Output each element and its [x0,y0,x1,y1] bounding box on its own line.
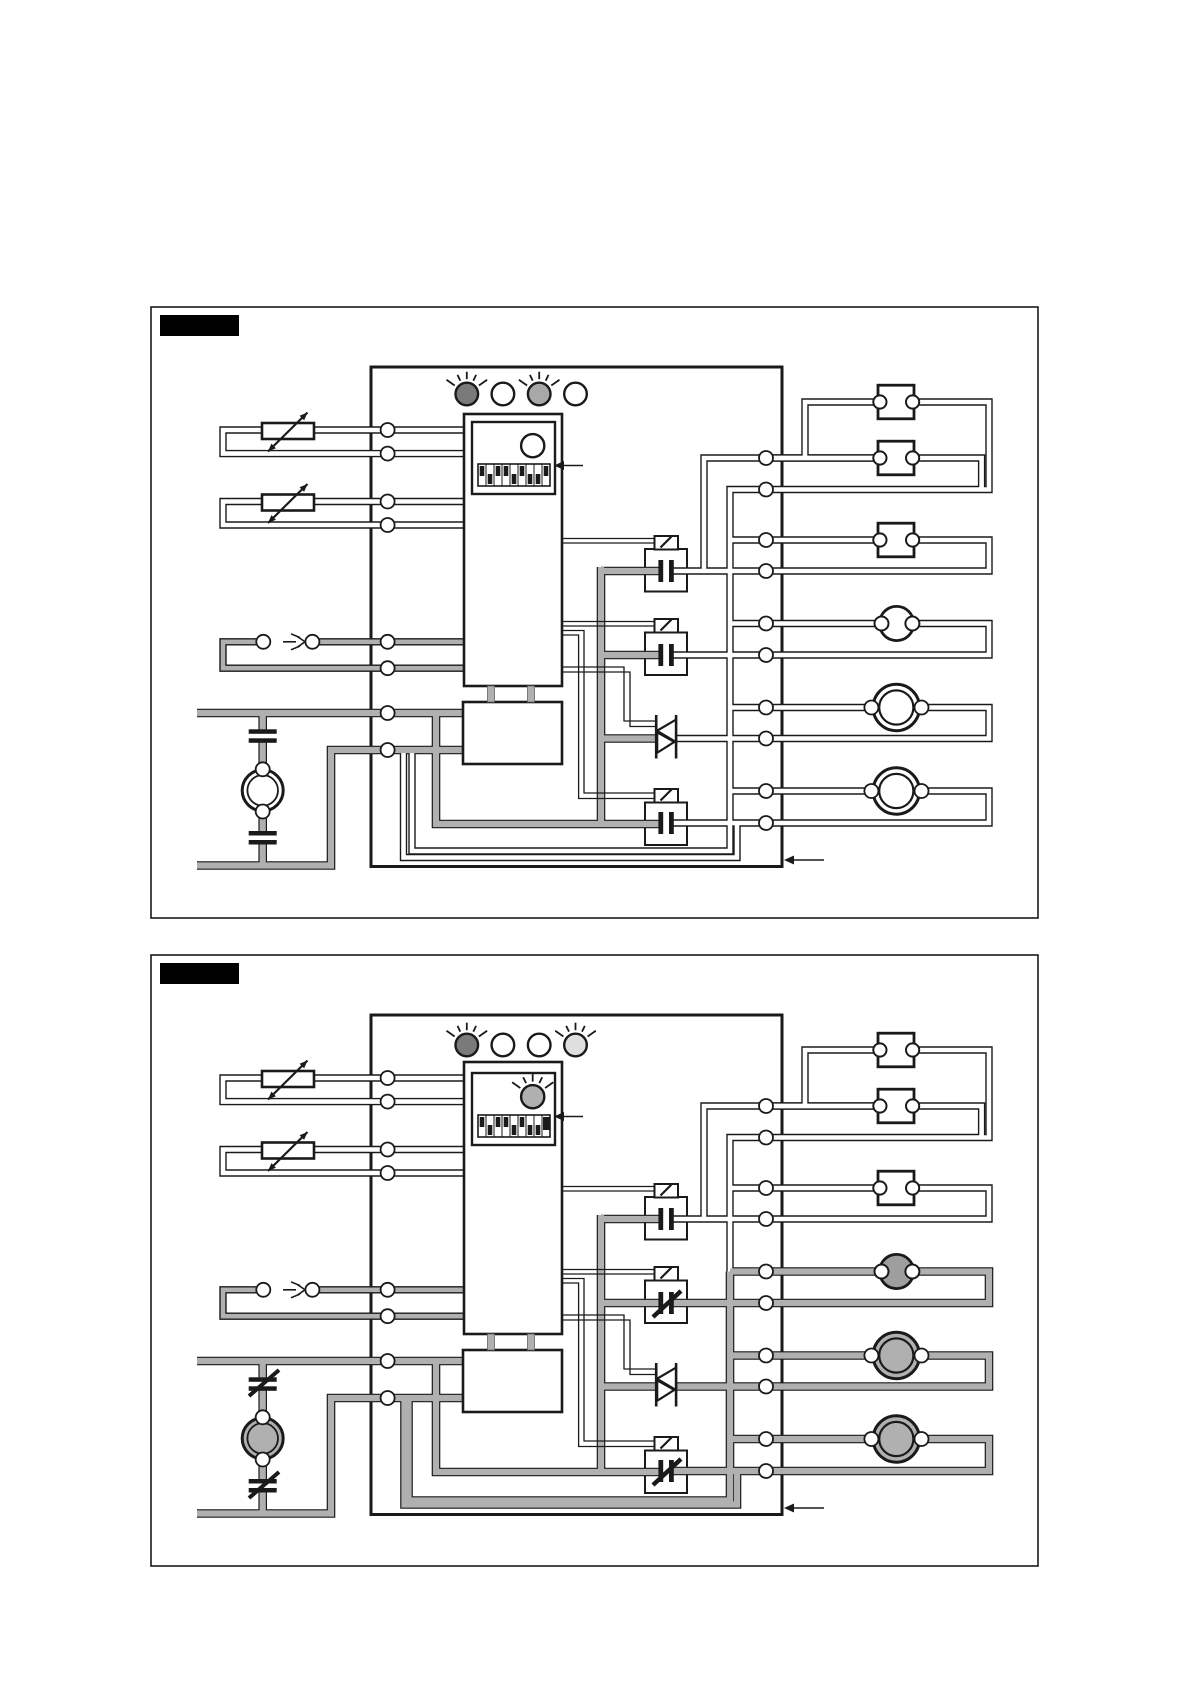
wire relay K3 bottom return [404,750,738,858]
relay K1 coil [655,1184,679,1198]
burner contact upper [249,729,277,743]
wire mains L bus [197,710,463,716]
wire load A branch [805,402,880,458]
wire gray stub to relay K2 contact [601,1300,659,1306]
relay K1 contact bars [658,1208,673,1230]
arrow pointing to DIP switch [554,461,583,470]
wire burner branch upper [260,713,266,731]
relay K2 coil [655,1267,679,1281]
wire load E return loop [766,1356,989,1387]
wire relay K1 output [671,1217,766,1222]
control line to relay K3 coil a [562,631,655,794]
control line to triac gate b [562,672,656,727]
LED 3 [519,372,560,406]
wire load E feed row [730,705,871,710]
wire underlays (black edges of all wires) [197,402,989,866]
relay K3 contact bars [653,1459,681,1485]
wire underlays (black edges of all wires) [197,1050,989,1514]
wire flame-sensor lead B loop [223,1290,464,1316]
indicator knob [521,434,544,457]
wire boiler-sensor lead B loop [223,502,464,526]
burner contact lower [249,831,277,845]
controller module [464,1062,562,1334]
wire gray stub to triac [601,1383,656,1389]
wire gray stub to relay K2 contact [601,652,659,658]
load D flue damper motor [875,1254,920,1288]
wire gray bus vertical [598,1215,604,1472]
wire gray bus vertical [598,567,604,824]
control unit outline [371,1015,782,1515]
wire terminal row1 riser [704,1106,880,1219]
wire flame-sensor lead A [320,639,465,644]
relay K3 coil [655,1437,679,1451]
wire load F feed row [730,1436,871,1442]
wire flame-sensor lead B loop [223,642,464,668]
control line to relay K1 coil a [562,1186,655,1188]
control unit outline [371,367,782,867]
control line to relay K2 coil b [562,625,655,627]
wire relay K3 output [671,1468,766,1474]
wire relay K3 bottom return [405,1398,738,1505]
wire load F return loop [766,1439,989,1471]
wire mains N loop [197,1398,463,1514]
wire load D return loop [766,1272,989,1304]
output terminals on unit edge [759,451,773,830]
wire load E return loop [766,708,989,739]
input terminals on unit edge [381,1071,395,1405]
wire outside-sensor lead A [314,428,464,433]
relay K2 contact box [645,633,687,676]
wire load A return loop + common return [730,402,989,624]
flame detector electrode [256,1282,319,1298]
wire load D return loop [766,624,989,656]
load B burner stage 1 [873,441,919,475]
load E heating pump [864,1332,928,1378]
display sub-panel [472,1073,555,1145]
wire load C feed row [730,538,880,543]
wire common return vertical lower [409,1272,731,1501]
power supply module [463,702,562,764]
LED 2 [492,383,515,406]
load C burner stage 2 [873,523,919,557]
relay K2 contact bars [653,1291,681,1317]
flame detector electrode [256,634,319,650]
relay K1 contact bars [658,560,673,582]
wire burner pump return lower [260,845,266,866]
wire relay K2 output [671,653,766,658]
display sub-panel [472,422,555,494]
LED 2 [492,1034,515,1057]
burner/boiler pump [242,1410,283,1466]
wire flame-sensor lead A [320,1288,465,1293]
control line to relay K1 coil b [562,1190,655,1192]
load A safety limiter [873,1033,919,1067]
outside temperature sensor (thermistor) [262,1061,314,1100]
relay K2 coil [655,619,679,633]
wire relay K2 output [671,1300,766,1306]
wire load D feed row [730,621,882,626]
load D flue damper motor [875,606,920,640]
DIP switch block [478,464,550,486]
wire burner pump return upper [260,1460,266,1480]
relay K3 contact box [645,803,687,846]
wire gray feed to relay K3 contact [436,1361,659,1472]
outside temperature sensor (thermistor) [262,413,314,452]
indicator knob [512,1074,553,1108]
wire load E feed row [730,1352,871,1358]
wire boiler-sensor lead A [314,499,464,504]
wire burner pump return upper [260,812,266,832]
wire burner pump feed [260,1390,266,1419]
input terminals on unit edge [381,423,395,757]
black caption label [160,315,239,336]
load A safety limiter [873,385,919,419]
burner contact upper [249,1370,279,1396]
control line to triac gate a [562,667,656,721]
load B burner stage 1 [873,1089,919,1123]
black caption label [160,963,239,984]
relay K3 contact box [645,1451,687,1494]
wire load B return [913,1106,982,1138]
wire load A return loop + common return [730,1050,989,1272]
relay K1 contact box [645,1197,687,1240]
LED 4 [564,383,587,406]
wire load F return loop [766,791,989,823]
control line to relay K2 coil a [562,1269,655,1271]
wire load C return loop [766,540,989,571]
control line to relay K3 coil b [562,635,655,799]
wire relay K1 output [671,569,766,574]
triac output element [656,1363,676,1407]
wire gray feed to relay K3 contact [436,713,659,824]
burner contact lower [249,1472,279,1498]
wire boiler-sensor lead A [314,1147,464,1152]
wire triac output [675,1383,766,1389]
relay K3 coil [655,789,679,803]
wire terminal row1 riser [704,458,880,571]
relay K1 coil [655,536,679,550]
wire burner pump return lower [260,1493,266,1514]
output terminals on unit edge [759,1099,773,1478]
wire load B feed row [766,1104,880,1109]
control line to relay K2 coil a [562,621,655,623]
relay K2 contact box [645,1281,687,1324]
control line to triac gate b [562,1320,656,1375]
wire relay K3 output [671,821,766,826]
wire load A branch [805,1050,880,1106]
wire burner branch upper [260,1361,266,1379]
arrow pointing to unit outline [784,1504,824,1513]
module connectors [488,1334,535,1350]
arrow pointing to DIP switch [554,1112,583,1121]
LED 3 [528,1034,551,1057]
wire load C feed row [730,1186,880,1191]
load F circulation pump [864,768,928,814]
module connectors [488,686,535,702]
control line to relay K3 coil a [562,1279,655,1442]
DIP switch block [478,1115,550,1137]
wire load B feed row [766,456,880,461]
wire load B return [913,458,982,490]
wire boiler-sensor lead B loop [223,1150,464,1174]
triac output element [656,715,676,759]
relay K3 contact bars [658,812,673,834]
wire outside-sensor lead B loop [223,430,464,454]
LED 1 (lit) [447,1023,488,1057]
load C burner stage 2 [873,1171,919,1205]
control line to relay K1 coil b [562,542,655,544]
LED 4 [555,1023,596,1057]
arrow pointing to unit outline [784,856,824,865]
wire gray stub to relay K1 contact [601,568,659,574]
wire load F feed row [730,789,871,794]
boiler temperature sensor (thermistor) [262,484,314,523]
load E heating pump [864,684,928,730]
wire triac output [675,736,766,741]
burner/boiler pump [242,762,283,818]
wire outside-sensor lead A [314,1076,464,1081]
control line to triac gate a [562,1315,656,1369]
wire gray stub to relay K1 contact [601,1216,659,1222]
wire burner pump feed [260,742,266,771]
relay K2 contact bars [658,644,673,666]
boiler temperature sensor (thermistor) [262,1132,314,1171]
wire gray stub to triac [601,735,656,741]
wire load D feed row [730,1268,882,1274]
relay K1 contact box [645,549,687,592]
controller module [464,414,562,686]
wire common return vertical lower [412,624,730,852]
panel 2 frame [151,955,1038,1566]
panel 1 frame [151,307,1038,918]
control line to relay K3 coil b [562,1283,655,1447]
control line to relay K2 coil b [562,1273,655,1275]
load F circulation pump [864,1416,928,1462]
wire outside-sensor lead B loop [223,1078,464,1102]
wire mains N loop [197,750,463,866]
power supply module [463,1350,562,1412]
LED 1 (lit) [447,372,488,406]
control line to relay K1 coil a [562,538,655,540]
wire mains L bus [197,1358,463,1364]
wire load C return loop [766,1188,989,1219]
